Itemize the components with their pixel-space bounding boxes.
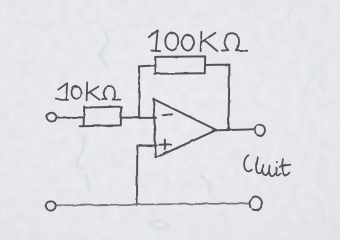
output wire: op-amp to output terminal xyxy=(215,129,255,130)
bottom-left terminal (open circle) xyxy=(46,201,56,210)
plus sign (non-inverting input) xyxy=(164,140,166,150)
minus sign (inverting input) xyxy=(163,113,172,116)
resistor R2 (100KΩ box) xyxy=(154,56,205,73)
wire: R1 to inverting input (node A junction at x=139) xyxy=(121,117,156,119)
bottom rail wire xyxy=(56,204,250,206)
output terminal (open circle) xyxy=(255,125,265,136)
feedback wire: R2 right side down to output node xyxy=(205,64,229,66)
bottom-right terminal (open circle) xyxy=(250,196,262,210)
junction blob: node A (R1 / feedback / op-amp input) xyxy=(138,116,139,119)
feedback wire: left vertical up from node A xyxy=(138,66,140,117)
junction blob: ground rail / non-inverting branch xyxy=(136,203,137,206)
feedback wire: top-left horizontal into R2 xyxy=(139,65,155,66)
wire: non-inverting input down to bottom rail xyxy=(136,146,138,206)
faint bleed-through background marks (decorative) xyxy=(288,9,324,224)
junction blob: output node (feedback / output wire) xyxy=(228,127,229,130)
label 100KΩ xyxy=(149,30,248,51)
op-amp U1 (triangle) xyxy=(153,99,216,158)
junction blob: op-amp apex xyxy=(213,129,215,133)
label U_uit (output voltage) xyxy=(244,155,290,176)
wire: input terminal to R1 xyxy=(57,116,85,118)
resistor R1 (10kΩ box) xyxy=(80,107,121,127)
input terminal (open circle, left) xyxy=(47,113,56,122)
label 10kΩ xyxy=(56,82,121,100)
wire: non-inverting input horizontal xyxy=(137,145,156,147)
